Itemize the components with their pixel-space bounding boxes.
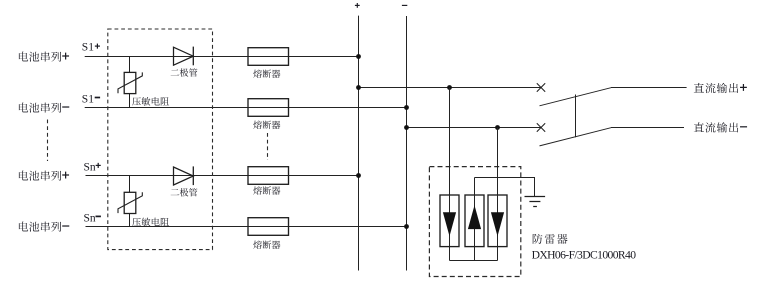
label DC output + 直流输出+ — [694, 83, 747, 93]
ground symbol — [525, 197, 546, 207]
wire S1- row from terminal to - bus — [85, 107, 407, 109]
junction switch feed + to arrester wire — [447, 85, 452, 90]
label 熔断器 (fuse FU1) — [253, 69, 280, 78]
arrester cell 2 (up arrow) — [465, 195, 484, 247]
switch QS pole 2 fixed contact X — [537, 123, 545, 132]
label 熔断器 (fuse FU4) — [253, 240, 280, 249]
label battery string 1 negative 电池串列- — [19, 103, 69, 113]
dashed enclosure box around diode/varistor protection group — [108, 29, 213, 250]
fuse FU2 熔断器 — [248, 99, 289, 117]
arrester cell 3 (down arrow) — [488, 195, 507, 247]
diode D2 on Sn+ row — [174, 166, 194, 185]
wire from switch pole 2 to DC output - — [611, 127, 684, 129]
junction switch feed - to arrester wire — [495, 125, 500, 130]
switch QS pole 2 blade — [540, 128, 612, 146]
label 压敏电阻 (varistor) — [132, 97, 169, 106]
junction S1+ row to + bus — [356, 54, 361, 59]
dashed continuation between fuse FU2 and fuse FU3 — [267, 133, 269, 160]
label 防雷器 (surge protector) — [533, 234, 568, 244]
svg-text:Sn: Sn — [84, 162, 96, 174]
label + of positive DC bus — [355, 3, 360, 8]
negative DC bus (-) vertical — [406, 16, 408, 271]
junction S1- row to - bus — [404, 105, 409, 110]
junction + bus to switch feed — [356, 85, 361, 90]
label 压敏电阻 (varistor) — [132, 218, 169, 227]
svg-text:Sn: Sn — [84, 212, 96, 224]
wire Sn+ row from terminal to + bus — [86, 175, 359, 177]
wire from + bus to disconnect switch pole 1 — [359, 87, 542, 89]
label 熔断器 (fuse FU2) — [253, 121, 280, 130]
switch QS gang bar linking both poles — [575, 95, 577, 138]
label battery string n negative 电池串列- — [19, 222, 69, 232]
label 二极管 (diode) — [171, 188, 198, 196]
label battery string n positive 电池串列+ — [19, 171, 69, 181]
switch QS pole 1 fixed contact X — [537, 83, 545, 92]
surge protector dashed enclosure — [429, 167, 520, 277]
wire from switch pole 1 to DC output + — [611, 87, 687, 89]
fuse FU1 熔断器 — [248, 48, 289, 66]
junction Sn+ row to + bus — [356, 173, 361, 178]
wire from arrester 2 to ground — [475, 178, 535, 197]
label 二极管 (diode) — [171, 68, 198, 76]
wire from - bus to disconnect switch pole 2 — [407, 127, 542, 129]
dashed continuation between string 1 and string n labels — [47, 120, 49, 162]
varistor RV2 connecting Sn+ to Sn- — [118, 176, 142, 227]
varistor RV1 connecting S1+ to S1- — [118, 57, 142, 108]
svg-text:S1: S1 — [82, 94, 94, 106]
label battery string 1 positive 电池串列+ — [19, 52, 69, 62]
wire Sn- row from terminal to - bus — [86, 226, 407, 228]
arrester bottom bus — [450, 260, 498, 262]
label 熔断器 (fuse FU3) — [253, 186, 280, 195]
svg-text:DXH06-F/3DC1000R40: DXH06-F/3DC1000R40 — [532, 249, 637, 262]
junction - bus to switch feed — [404, 125, 409, 130]
diode D1 on S1+ row — [174, 47, 194, 66]
arrester cell 1 (down arrow) — [440, 195, 459, 247]
wire S1+ row from terminal to + bus — [85, 56, 359, 58]
wire arrester 2 center vertical — [474, 178, 476, 261]
switch QS pole 1 blade — [540, 88, 612, 106]
label - of negative DC bus — [402, 4, 407, 6]
positive DC bus (+) vertical — [358, 16, 360, 271]
svg-text:S1: S1 — [82, 42, 94, 54]
fuse FU4 熔断器 — [248, 218, 289, 236]
label DC output - 直流输出- — [694, 122, 747, 132]
wire from - feed junction down to arrester 3 — [497, 128, 499, 261]
junction Sn- row to - bus — [404, 224, 409, 229]
wire from + feed junction down to arrester 1 — [449, 88, 451, 261]
fuse FU3 熔断器 — [248, 167, 289, 185]
